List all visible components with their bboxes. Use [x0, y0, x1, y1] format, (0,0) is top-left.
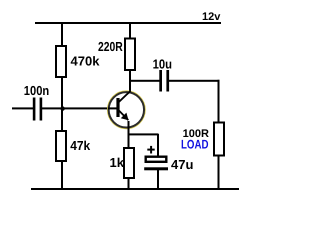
wire: R1 bottom to R2 top (through base node)	[61, 77, 63, 131]
wire: emitter down to junction and 1k	[128, 121, 130, 148]
capacitor C3 47u negative plate	[144, 167, 168, 170]
transistor Q1 body circle	[109, 92, 144, 127]
wire: R5 bottom to ground rail	[218, 156, 220, 189]
wire: C3 bottom to ground rail	[157, 170, 159, 188]
capacitor C2 10u	[159, 70, 162, 92]
svg-text:10u: 10u	[153, 57, 172, 72]
wire: rail to R1 top	[61, 23, 63, 45]
resistor R4 1k	[124, 148, 134, 178]
svg-text:LOAD: LOAD	[181, 138, 209, 152]
Q1 collector slant	[119, 91, 131, 102]
svg-text:100n: 100n	[24, 83, 49, 98]
wire: corner down to R5 top	[218, 80, 220, 123]
capacitor C3 47u positive plate	[146, 157, 167, 162]
0V ground rail	[31, 188, 239, 190]
svg-text:220R: 220R	[98, 39, 123, 54]
Q1 emitter slant	[119, 111, 128, 121]
wire: input lead left of C1	[12, 107, 33, 109]
resistor R1 470k	[56, 46, 66, 77]
wire: C1 to base node to Q1 base	[42, 107, 115, 109]
wire: junction down to C3 plus plate	[157, 134, 159, 156]
capacitor C3 47u plus sign	[147, 149, 154, 151]
capacitor C1 100n	[33, 98, 36, 121]
wire: C2 right plate to load corner	[169, 80, 220, 82]
wire: rail to R3 top	[129, 23, 131, 39]
Q1 base bar	[116, 98, 119, 117]
resistor R5 100R (load)	[214, 123, 224, 156]
svg-text:47u: 47u	[171, 157, 193, 172]
resistor R2 47k	[56, 131, 66, 161]
svg-text:1k: 1k	[110, 155, 125, 170]
transistor Q1 outer halo	[108, 91, 145, 128]
svg-text:12v: 12v	[202, 11, 221, 23]
wire: R4 bottom to ground rail	[128, 178, 130, 188]
wire: collector node to C2 left plate	[130, 80, 160, 82]
svg-text:47k: 47k	[70, 138, 91, 153]
wire: R2 bottom to ground rail	[61, 161, 63, 188]
+12V supply rail	[35, 22, 221, 24]
Q1 emitter arrowhead	[121, 113, 129, 121]
resistor R3 220R	[125, 39, 135, 71]
svg-text:470k: 470k	[71, 54, 101, 69]
node: base junction dot	[60, 106, 64, 110]
Q1 base lead inside circle	[108, 107, 117, 109]
wire: emitter junction to C3 top	[128, 133, 159, 135]
wire: R3 bottom to Q1 collector	[129, 70, 131, 93]
